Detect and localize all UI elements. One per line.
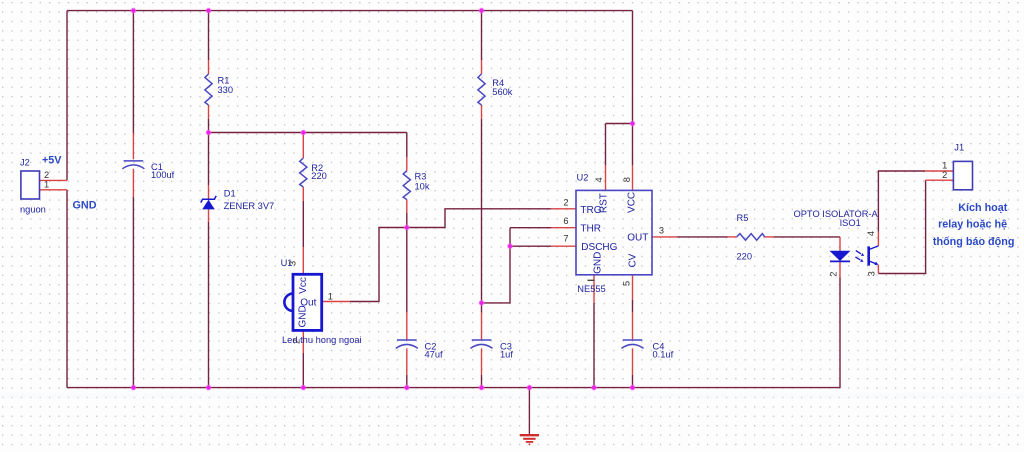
svg-text:J2: J2	[20, 157, 30, 167]
svg-text:CV: CV	[628, 253, 639, 267]
wire U2 OUT to R5 to ISO1	[652, 237, 840, 251]
svg-text:220: 220	[311, 171, 327, 181]
svg-text:5: 5	[622, 281, 632, 286]
svg-text:1: 1	[328, 292, 333, 302]
svg-text:560k: 560k	[492, 87, 513, 97]
svg-text:GND: GND	[297, 305, 308, 327]
svg-text:2: 2	[44, 170, 49, 180]
svg-text:1uf: 1uf	[500, 350, 513, 360]
junction mid rail R2	[301, 130, 306, 135]
svg-text:U2: U2	[577, 172, 589, 182]
svg-text:Vcc: Vcc	[298, 277, 309, 294]
svg-text:GND: GND	[73, 199, 97, 211]
svg-text:3: 3	[659, 226, 664, 236]
svg-text:7: 7	[563, 233, 568, 243]
svg-text:D1: D1	[224, 188, 236, 198]
wire C1 branch	[132, 11, 134, 388]
junction bottom rail D1	[206, 385, 211, 390]
svg-text:220: 220	[737, 252, 753, 262]
svg-text:OPTO ISOLATOR-A: OPTO ISOLATOR-A	[794, 209, 879, 219]
svg-text:NE555: NE555	[577, 284, 605, 294]
wire GND bottom rail	[67, 387, 841, 389]
IC U2 NE555	[576, 190, 652, 274]
junction R3 TRG net	[405, 225, 410, 230]
wire U2 THR net	[482, 228, 577, 303]
IC U1 IR receiver	[284, 274, 321, 330]
wire U2 DSCHG net	[510, 245, 576, 247]
connector J1	[953, 161, 972, 189]
svg-text:3: 3	[288, 261, 298, 266]
wire U2 CV pin to C4	[632, 275, 634, 388]
wire +5V top rail	[67, 10, 633, 12]
junction bottom rail C2	[405, 385, 410, 390]
junction top rail R4	[479, 8, 484, 13]
wire R1 D1 branch	[208, 11, 210, 388]
wire mid rail node A	[209, 132, 407, 134]
svg-text:relay hoặc hệ: relay hoặc hệ	[938, 218, 1007, 230]
wire ISO1 collector to J1 pin 1	[878, 171, 953, 246]
svg-text:1: 1	[44, 179, 49, 189]
wire J2 pin 1 stub	[40, 189, 68, 191]
capacitor C4	[622, 340, 644, 348]
svg-text:thống báo động: thống báo động	[933, 236, 1015, 248]
ground	[520, 435, 539, 445]
svg-text:VCC: VCC	[626, 192, 637, 213]
junction bottom rail C3	[479, 385, 484, 390]
wire ISO1 LED cathode to GND rail	[839, 261, 841, 387]
svg-text:100uf: 100uf	[151, 170, 175, 180]
resistor R1	[205, 74, 212, 105]
svg-text:Led thu hong ngoai: Led thu hong ngoai	[282, 335, 362, 345]
svg-text:OUT: OUT	[627, 232, 648, 243]
junction top rail R1	[206, 8, 211, 13]
svg-text:8: 8	[622, 177, 632, 182]
wire R2 branch to U1 pin 3	[302, 133, 304, 275]
capacitor C2	[396, 340, 418, 348]
junction top rail C1	[131, 8, 136, 13]
svg-text:R3: R3	[415, 172, 427, 182]
svg-text:nguon: nguon	[20, 205, 46, 215]
svg-text:3: 3	[867, 271, 877, 276]
capacitor C1	[122, 161, 144, 169]
junction bottom rail C4	[630, 385, 635, 390]
svg-text:6: 6	[563, 216, 568, 226]
svg-text:ISO1: ISO1	[840, 218, 861, 228]
opto isolator ISO1	[830, 246, 879, 266]
svg-text:2: 2	[829, 272, 839, 277]
svg-text:2: 2	[942, 170, 947, 180]
wire R4 C3 branch	[481, 11, 483, 388]
junction mid rail R1 D1	[206, 130, 211, 135]
svg-text:4: 4	[594, 177, 604, 182]
junction bottom rail C1	[131, 385, 136, 390]
junction bottom rail ground	[527, 385, 532, 390]
junction THR DSCHG	[508, 244, 513, 249]
svg-text:330: 330	[218, 85, 234, 95]
capacitor C3	[471, 340, 493, 348]
resistor R2	[300, 158, 307, 187]
diode D1 zener	[201, 196, 216, 210]
svg-text:2: 2	[563, 197, 568, 207]
svg-text:J1: J1	[954, 143, 964, 153]
junction bottom rail U1	[301, 385, 306, 390]
wire U1 pin 2 to GND rail	[302, 330, 304, 387]
wire GND left vertical	[66, 190, 68, 388]
svg-text:ZENER 3V7: ZENER 3V7	[224, 201, 275, 211]
svg-text:4: 4	[866, 231, 876, 236]
svg-text:R5: R5	[737, 213, 749, 223]
svg-text:47uf: 47uf	[425, 350, 444, 360]
svg-text:DSCHG: DSCHG	[581, 242, 617, 253]
wire +5V left vertical	[66, 11, 68, 181]
resistor R4	[478, 74, 485, 105]
svg-text:0.1uf: 0.1uf	[653, 350, 674, 360]
junction bottom rail U2 GND	[592, 385, 597, 390]
svg-text:RST: RST	[598, 193, 609, 213]
pin 1 U2	[588, 279, 595, 281]
connector J2	[21, 171, 40, 199]
junction RST VCC	[630, 121, 635, 126]
wire ISO1 emitter to J1 pin 2	[878, 180, 953, 273]
svg-text:Kích hoạt: Kích hoạt	[958, 202, 1008, 214]
svg-text:10k: 10k	[415, 181, 430, 191]
svg-text:GND: GND	[593, 252, 604, 274]
svg-text:+5V: +5V	[42, 154, 62, 166]
wire U2 GND pin to rail	[593, 275, 595, 388]
resistor R3	[403, 171, 410, 200]
resistor R5	[737, 234, 765, 241]
wire R3 branch to C2	[406, 133, 408, 388]
wire U2 RST VCC riser	[606, 11, 633, 191]
wire J2 pin 2 stub	[40, 179, 68, 181]
wire U1 out to U2 TRG	[322, 209, 576, 302]
wire ground stem	[528, 388, 530, 434]
junction R4 C3	[479, 301, 484, 306]
svg-text:THR: THR	[580, 223, 601, 234]
